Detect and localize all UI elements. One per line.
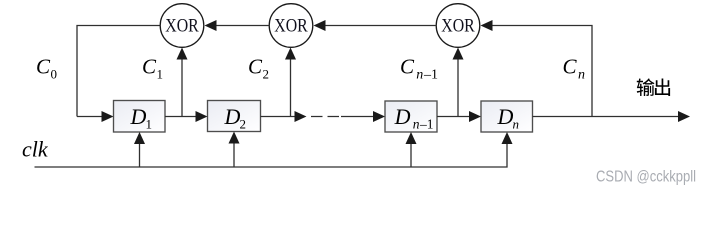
- xor U3: [436, 4, 480, 48]
- net clk label: [22, 137, 49, 162]
- svg-text:2: 2: [263, 67, 270, 82]
- svg-text:D: D: [224, 104, 241, 129]
- node C0 label: [36, 55, 57, 82]
- svg-text:–1: –1: [423, 68, 438, 83]
- node Cn-1 label: [400, 55, 438, 83]
- svg-text:–1: –1: [419, 117, 434, 132]
- wire: clk arrow up into D2: [229, 132, 240, 168]
- flipflop Dn: [481, 101, 533, 132]
- svg-text:C: C: [400, 55, 415, 79]
- svg-text:0: 0: [51, 67, 58, 82]
- svg-text:1: 1: [146, 117, 153, 132]
- output label "shuchu" drawn as glyph paths: [637, 78, 670, 96]
- wire: input into D1 with arrowhead: [77, 111, 114, 122]
- svg-text:XOR: XOR: [274, 16, 308, 37]
- wire: clk distribution line: [35, 143, 508, 167]
- watermark CSDN: [596, 169, 696, 186]
- flipflop D1: [114, 101, 166, 133]
- wire: D2 output arrow then dashed continuation: [261, 111, 307, 122]
- svg-text:1: 1: [157, 67, 164, 82]
- flipflop Dn-1: [385, 101, 437, 132]
- wire: tap up from D2 output wire into XOR U2 bottom, arrow up: [285, 48, 296, 117]
- node C2 label: [248, 55, 269, 82]
- wire: Dn-1 output to Dn input with junction tap, arrow into Dn: [437, 111, 481, 122]
- wire: clk arrow up into D1: [134, 132, 145, 167]
- svg-text:D: D: [394, 104, 411, 129]
- svg-text:n: n: [513, 117, 520, 132]
- svg-text:D: D: [130, 104, 147, 129]
- xor U2: [269, 4, 313, 48]
- wire: into Dn-1 with arrowhead: [341, 111, 385, 122]
- svg-text:CSDN @cckkppll: CSDN @cckkppll: [596, 169, 696, 186]
- svg-text:2: 2: [240, 117, 247, 132]
- flipflop D2: [208, 101, 261, 132]
- wire: XOR U2 output to XOR U1 input, arrow into U1: [205, 20, 269, 31]
- wire: dashed ellipsis between D2 and Dn-1: [311, 116, 339, 118]
- svg-text:XOR: XOR: [441, 16, 475, 37]
- svg-text:D: D: [497, 104, 514, 129]
- svg-text:n: n: [413, 117, 420, 132]
- svg-text:C: C: [142, 55, 157, 79]
- wire: feedback top-left segment from node at x77 into XOR U1 output: [77, 26, 160, 117]
- node C1 label: [142, 55, 163, 82]
- svg-text:n: n: [578, 68, 585, 83]
- wire: tap up from Dn-1-Dn wire into XOR U3 bottom, arrow up: [453, 48, 464, 117]
- xor U1: [160, 4, 204, 48]
- wire: clk arrow up into Dn-1: [406, 132, 417, 167]
- wire: D1 output to D2 input with junction tap, arrow into D2: [165, 111, 208, 122]
- wire: XOR U3 output to XOR U2 input, arrow into U2: [314, 20, 436, 31]
- wire: Dn output to output arrow (shuchu): [533, 111, 691, 122]
- node Cn label: [563, 55, 586, 83]
- svg-text:C: C: [36, 55, 51, 79]
- wire: tap up from D1-D2 wire into XOR U1 bottom, arrow up: [177, 48, 188, 117]
- wire: feedback from output node up and left into XOR U3, arrow into U3: [481, 20, 593, 117]
- svg-text:XOR: XOR: [165, 16, 199, 37]
- wire: clk arrow up into Dn: [502, 132, 513, 144]
- svg-text:C: C: [248, 55, 263, 79]
- svg-text:n: n: [416, 68, 423, 83]
- svg-text:C: C: [563, 55, 578, 79]
- svg-text:clk: clk: [22, 137, 49, 162]
